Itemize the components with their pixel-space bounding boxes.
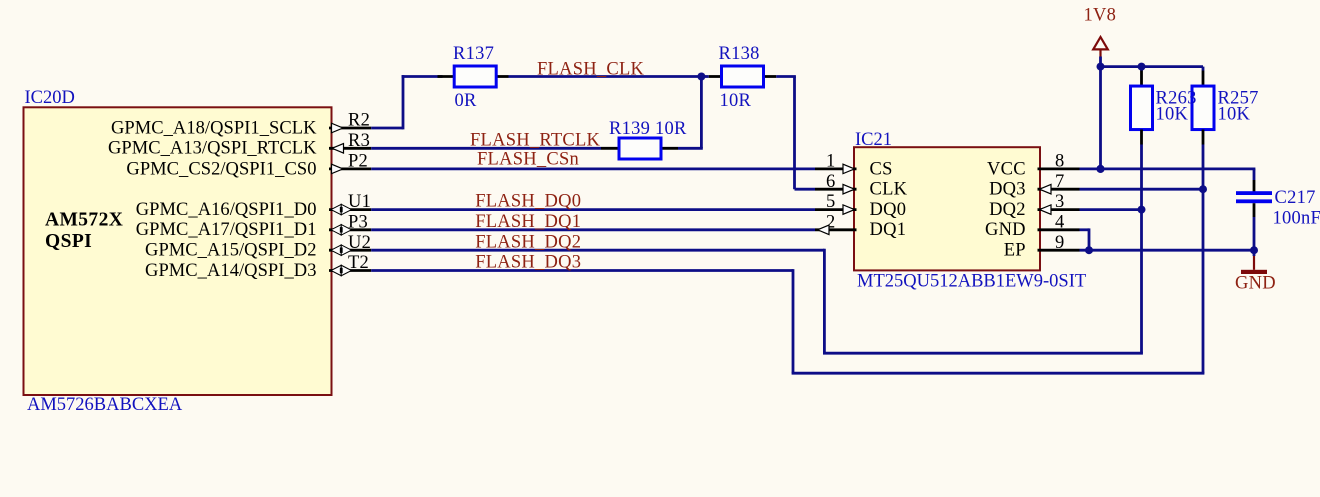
- svg-text:4: 4: [1055, 212, 1065, 232]
- svg-text:FLASH_DQ1: FLASH_DQ1: [475, 212, 581, 232]
- svg-text:7: 7: [1055, 172, 1065, 192]
- svg-text:GPMC_A15/QSPI_D2: GPMC_A15/QSPI_D2: [145, 241, 316, 261]
- svg-text:10K: 10K: [1218, 105, 1251, 125]
- svg-text:R138: R138: [719, 44, 760, 64]
- svg-text:GPMC_CS2/QSPI1_CS0: GPMC_CS2/QSPI1_CS0: [126, 159, 316, 179]
- svg-text:VCC: VCC: [987, 159, 1026, 179]
- svg-text:GPMC_A18/QSPI1_SCLK: GPMC_A18/QSPI1_SCLK: [111, 118, 317, 138]
- svg-text:CS: CS: [870, 159, 893, 179]
- svg-text:GPMC_A14/QSPI_D3: GPMC_A14/QSPI_D3: [145, 261, 316, 281]
- svg-text:DQ1: DQ1: [870, 220, 907, 240]
- svg-text:EP: EP: [1004, 241, 1026, 261]
- svg-text:3: 3: [1055, 192, 1065, 212]
- svg-text:6: 6: [826, 172, 836, 192]
- svg-text:CLK: CLK: [870, 180, 908, 200]
- svg-text:C217: C217: [1275, 188, 1316, 208]
- svg-text:FLASH_RTCLK: FLASH_RTCLK: [470, 130, 601, 150]
- svg-text:FLASH_DQ2: FLASH_DQ2: [475, 232, 581, 252]
- svg-text:IC20D: IC20D: [25, 88, 75, 108]
- svg-text:GPMC_A13/QSPI_RTCLK: GPMC_A13/QSPI_RTCLK: [108, 139, 317, 159]
- svg-text:AM5726BABCXEA: AM5726BABCXEA: [27, 395, 183, 415]
- svg-text:QSPI: QSPI: [45, 231, 92, 252]
- svg-text:10K: 10K: [1156, 105, 1189, 125]
- svg-text:100nF: 100nF: [1273, 209, 1320, 229]
- svg-text:8: 8: [1055, 152, 1065, 172]
- svg-text:FLASH_DQ3: FLASH_DQ3: [475, 253, 581, 273]
- svg-text:IC21: IC21: [855, 130, 892, 150]
- svg-text:GPMC_A17/QSPI1_D1: GPMC_A17/QSPI1_D1: [136, 220, 317, 240]
- svg-text:R3: R3: [348, 131, 370, 151]
- svg-text:AM572X: AM572X: [45, 210, 123, 231]
- svg-text:FLASH_CLK: FLASH_CLK: [537, 59, 644, 79]
- svg-text:R139 10R: R139 10R: [609, 119, 687, 139]
- svg-text:1V8: 1V8: [1084, 5, 1117, 25]
- svg-text:GPMC_A16/QSPI1_D0: GPMC_A16/QSPI1_D0: [136, 200, 317, 220]
- svg-text:5: 5: [826, 192, 836, 212]
- svg-text:R137: R137: [453, 44, 494, 64]
- svg-text:GND: GND: [985, 220, 1026, 240]
- svg-text:DQ3: DQ3: [989, 180, 1026, 200]
- svg-text:DQ2: DQ2: [989, 200, 1026, 220]
- svg-text:FLASH_DQ0: FLASH_DQ0: [475, 192, 581, 212]
- svg-text:FLASH_CSn: FLASH_CSn: [477, 149, 579, 169]
- svg-text:9: 9: [1055, 233, 1065, 253]
- svg-text:10R: 10R: [720, 91, 752, 111]
- svg-text:GND: GND: [1235, 274, 1276, 294]
- svg-text:1: 1: [826, 152, 836, 172]
- svg-text:MT25QU512ABB1EW9-0SIT: MT25QU512ABB1EW9-0SIT: [857, 272, 1086, 292]
- svg-text:P2: P2: [348, 152, 368, 172]
- svg-text:R2: R2: [348, 111, 370, 131]
- svg-text:DQ0: DQ0: [870, 200, 907, 220]
- svg-text:0R: 0R: [455, 91, 478, 111]
